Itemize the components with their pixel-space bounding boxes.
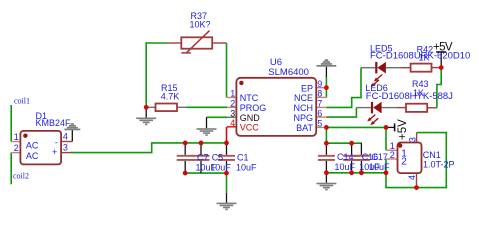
svg-text:9: 9: [317, 79, 322, 89]
svg-text:8: 8: [317, 89, 322, 99]
svg-text:SLM6400: SLM6400: [268, 67, 309, 78]
svg-text:1: 1: [230, 89, 235, 99]
svg-text:BAT: BAT: [296, 123, 313, 133]
svg-text:EP: EP: [301, 84, 313, 94]
svg-text:+5V: +5V: [433, 41, 453, 53]
svg-text:FC-D1608URK-620D10: FC-D1608URK-620D10: [370, 50, 470, 61]
svg-text:1.0T-2P: 1.0T-2P: [423, 159, 455, 169]
svg-text:NPG: NPG: [293, 113, 313, 123]
svg-text:KMB24F: KMB24F: [36, 118, 72, 128]
svg-text:C5: C5: [212, 153, 224, 163]
svg-text:10uF: 10uF: [236, 162, 257, 172]
svg-text:VCC: VCC: [240, 123, 260, 133]
svg-text:2: 2: [390, 150, 395, 160]
svg-text:3: 3: [63, 143, 68, 153]
svg-text:FC-D1608HYK-588J: FC-D1608HYK-588J: [366, 91, 453, 102]
svg-text:2: 2: [401, 157, 407, 168]
svg-text:C7: C7: [197, 153, 209, 163]
svg-text:4.7K: 4.7K: [161, 92, 180, 102]
svg-text:6: 6: [317, 108, 322, 118]
svg-text:4: 4: [63, 132, 68, 142]
svg-text:1: 1: [14, 132, 19, 142]
svg-text:10uF: 10uF: [369, 162, 390, 172]
svg-text:NCH: NCH: [294, 103, 314, 113]
svg-text:GND: GND: [240, 113, 260, 123]
svg-text:4: 4: [407, 175, 417, 180]
svg-text:2: 2: [14, 143, 19, 153]
svg-text:3: 3: [230, 108, 235, 118]
svg-text:NTC: NTC: [240, 93, 259, 103]
svg-text:4: 4: [230, 118, 235, 128]
svg-text:AC: AC: [26, 151, 39, 161]
svg-text:AC: AC: [26, 140, 39, 150]
svg-text:C14: C14: [337, 152, 354, 162]
svg-text:coil1: coil1: [14, 97, 30, 106]
svg-text:PROG: PROG: [240, 103, 267, 113]
svg-text:C1: C1: [237, 153, 249, 163]
svg-text:-: -: [55, 138, 58, 148]
svg-text:10uF: 10uF: [210, 162, 231, 172]
svg-text:+5V: +5V: [397, 119, 409, 140]
svg-text:10K?: 10K?: [190, 20, 211, 30]
svg-text:10uF: 10uF: [335, 162, 356, 172]
svg-text:7: 7: [317, 99, 322, 109]
svg-text:C17: C17: [371, 152, 388, 162]
svg-text:NCE: NCE: [294, 93, 313, 103]
svg-text:+: +: [52, 147, 57, 157]
svg-text:5: 5: [317, 119, 322, 129]
svg-text:2: 2: [230, 98, 235, 108]
svg-text:coil2: coil2: [13, 172, 29, 181]
